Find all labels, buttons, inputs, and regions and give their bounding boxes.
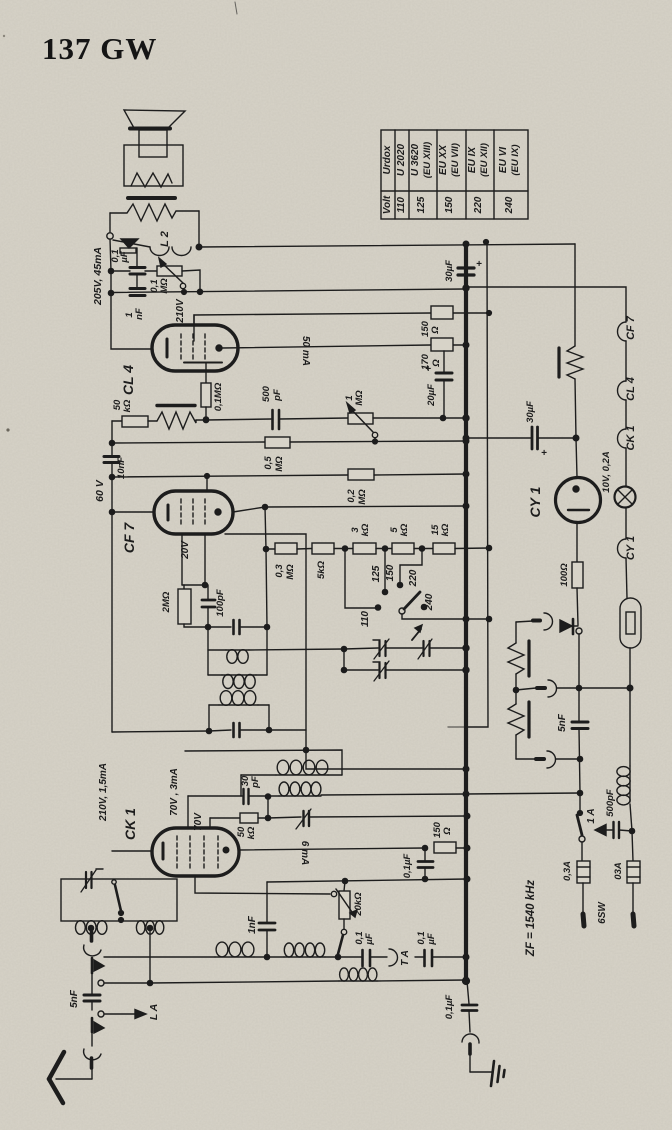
jack TA: [389, 949, 398, 966]
wire coil2 to LW line: [149, 928, 151, 983]
resistor 150 ohm (A): [431, 306, 453, 319]
tube CK1: [112, 850, 152, 852]
wire rail to cap: [111, 270, 130, 272]
pot 1M wiper: [372, 432, 377, 437]
svg-text:Volt: Volt: [382, 195, 393, 214]
fuse 0,3A left: [581, 842, 583, 861]
wire H8 0,5M row: [112, 442, 265, 443]
svg-text:137 GW: 137 GW: [42, 31, 157, 66]
svg-text:kΩ: kΩ: [122, 399, 133, 412]
svg-text:20kΩ: 20kΩ: [353, 892, 364, 917]
svg-text:100Ω: 100Ω: [559, 563, 570, 587]
dial lamp: [615, 487, 636, 508]
wire to terminal: [109, 213, 111, 232]
svg-text:220: 220: [408, 569, 419, 587]
pot wiper: [180, 283, 185, 288]
capacitor 1nF osc: [266, 882, 268, 922]
svg-text:(EU VII): (EU VII): [450, 143, 461, 177]
heater chain: [618, 322, 627, 341]
svg-text:kΩ: kΩ: [246, 826, 257, 839]
svg-text:Ω: Ω: [430, 326, 441, 335]
resistor 100 ohm: [576, 522, 578, 562]
svg-text:pF: pF: [272, 389, 283, 402]
oscillator feed line y750: [185, 750, 342, 775]
plug triangle right: [572, 619, 575, 634]
svg-text:EU XX: EU XX: [438, 144, 449, 175]
wire left rail upper: [110, 239, 152, 349]
svg-text:10V, 0,2A: 10V, 0,2A: [601, 451, 612, 493]
field coil box: [124, 145, 183, 186]
mains coil: [629, 688, 631, 766]
capacitor 500pF bottom: [612, 822, 614, 838]
svg-text:U 3620: U 3620: [410, 143, 421, 176]
transformer core: [128, 196, 175, 200]
svg-text:CK 1: CK 1: [122, 808, 138, 840]
svg-text:Urdox: Urdox: [382, 145, 393, 174]
svg-text:110: 110: [360, 611, 371, 627]
svg-text:30µF: 30µF: [525, 401, 536, 423]
oscillator trimmer: [268, 817, 301, 818]
svg-text:MΩ: MΩ: [354, 390, 365, 406]
wire H9 0,2M row: [112, 475, 348, 477]
svg-text:5nF: 5nF: [69, 989, 80, 1008]
resistor 170 ohm (B): [431, 338, 453, 351]
tube CL4: [152, 325, 238, 371]
wire y688: [516, 688, 536, 690]
bus bottom to ground: [463, 978, 470, 985]
capacitor 0,1uF ground: [462, 1004, 477, 1007]
IF A lower coil: [208, 674, 222, 676]
svg-text:MΩ: MΩ: [285, 564, 296, 580]
field coil resistor: [131, 173, 172, 187]
svg-text:30µF: 30µF: [444, 260, 455, 282]
svg-text:210V: 210V: [175, 298, 186, 324]
LA tap: [98, 1011, 104, 1017]
tube CY1: [576, 438, 577, 477]
svg-text:EU IX: EU IX: [467, 146, 478, 173]
band trimmer: [85, 872, 87, 888]
IF B cap line y730: [112, 731, 209, 732]
band switch box: [61, 879, 177, 921]
svg-text:ZF = 1540 kHz: ZF = 1540 kHz: [525, 880, 537, 958]
wire terminal to L2: [113, 240, 150, 247]
svg-text:CL 4: CL 4: [120, 365, 136, 395]
wire transformer right lead: [198, 211, 200, 247]
wire to Urdox branch: [574, 244, 576, 346]
coil L2: [150, 247, 191, 256]
wire H4 anode supply: [194, 313, 431, 326]
svg-text:MΩ: MΩ: [357, 489, 368, 505]
capacitor 0,1uF: [136, 248, 138, 266]
oscillator coil O2: [268, 795, 279, 797]
svg-text:CY 1: CY 1: [527, 486, 543, 517]
svg-text:µF: µF: [119, 251, 130, 263]
svg-text:205V, 45mA: 205V, 45mA: [92, 247, 104, 306]
wire H11 CF7 anode: [233, 507, 265, 512]
jack line y625: [516, 621, 533, 622]
svg-text:EU VI: EU VI: [498, 147, 509, 173]
wire H2 heater feed: [466, 287, 626, 322]
capacitor 500pF: [271, 410, 274, 429]
svg-text:kΩ: kΩ: [360, 523, 371, 536]
wire H6 CL4 anode: [222, 345, 431, 348]
svg-text:0,1MΩ: 0,1MΩ: [213, 382, 224, 411]
IF A coupling coil: [208, 649, 226, 651]
svg-text:50 mA: 50 mA: [300, 336, 311, 366]
capacitor 100pF: [207, 585, 209, 599]
svg-text:150: 150: [385, 564, 396, 581]
trimmer row y670: [343, 649, 345, 670]
resistor 50k osc: [267, 797, 269, 819]
svg-text:T A: T A: [400, 950, 411, 966]
svg-text:CK 1: CK 1: [625, 425, 637, 450]
potentiometer 20k: [344, 881, 345, 891]
svg-text:100pF: 100pF: [215, 589, 226, 617]
coil ant2: [267, 956, 284, 958]
capacitor 0,1uF bottom: [424, 848, 426, 860]
coil ant3: [339, 980, 377, 982]
svg-text:150: 150: [444, 196, 455, 213]
svg-text:+: +: [425, 364, 431, 375]
band coil 1: [76, 921, 86, 935]
svg-text:2MΩ: 2MΩ: [161, 591, 172, 613]
svg-text:60 V: 60 V: [94, 479, 106, 502]
paper mark top edge: [235, 2, 237, 14]
table Volt/Urdox: [381, 130, 528, 219]
svg-text:0,1µF: 0,1µF: [444, 995, 455, 1020]
svg-text:0,2: 0,2: [346, 489, 357, 503]
output transformer winding: [110, 204, 199, 221]
trimmer arrow: [412, 629, 421, 640]
IF transformer B coil: [209, 704, 219, 706]
capacitor 10nF in rail: [104, 455, 119, 458]
choke 2 with core: [515, 690, 517, 704]
band switch arm: [112, 880, 116, 884]
capacitor 30uF on bus: [458, 266, 474, 269]
capacitor 30pF: [188, 795, 242, 797]
svg-text:Ω: Ω: [431, 359, 442, 368]
terminal circle: [107, 233, 113, 239]
svg-text:6SW: 6SW: [597, 901, 608, 924]
svg-text:L A: L A: [148, 1004, 160, 1020]
tube CF7: [112, 511, 154, 513]
svg-text:MΩ: MΩ: [159, 278, 170, 294]
potentiometer 0,1M: [145, 270, 157, 272]
ground symbol: [491, 1061, 494, 1086]
choke 1 with core: [515, 622, 517, 643]
voltage selector contacts: [345, 548, 378, 608]
wire anode to IF primary: [265, 507, 267, 627]
capacitor 5nF right: [578, 634, 580, 721]
svg-text:kΩ: kΩ: [440, 523, 451, 536]
svg-text:500pF: 500pF: [605, 789, 616, 817]
svg-text:CY 1: CY 1: [625, 536, 637, 560]
IF transformer A top cap: [205, 624, 210, 629]
wire H13 divider row: [266, 548, 275, 550]
svg-text:Ω: Ω: [442, 827, 453, 836]
svg-text:110: 110: [396, 197, 407, 213]
antenna: [49, 1052, 64, 1079]
CF7 lower pins: [181, 534, 183, 585]
svg-text:pF: pF: [250, 776, 261, 789]
resistor 2M: [183, 585, 185, 589]
fuse holder oval: [620, 598, 641, 648]
wire H1 top bus: [199, 244, 575, 247]
jack ground: [462, 1034, 479, 1043]
capacitor 1nF top: [130, 287, 145, 290]
svg-text:20µF: 20µF: [426, 384, 437, 407]
svg-text:L 2: L 2: [159, 231, 171, 247]
wire 6mA anode line: [239, 848, 425, 850]
svg-text:125: 125: [416, 196, 427, 213]
svg-text:0,3: 0,3: [274, 564, 285, 578]
svg-text:6 mA: 6 mA: [299, 841, 310, 865]
speaker magnet: [139, 130, 167, 157]
svg-text:CL 4: CL 4: [625, 377, 637, 401]
svg-text:240: 240: [424, 593, 435, 611]
vertical line x489: [466, 242, 488, 727]
svg-text:(EU XIII): (EU XIII): [422, 142, 433, 178]
svg-text:nF: nF: [134, 308, 145, 320]
capacitor 0,1uF TA left: [361, 950, 364, 966]
svg-text:03A: 03A: [613, 862, 624, 880]
svg-text:1nF: 1nF: [247, 915, 258, 934]
wire H4 right of box A: [453, 312, 489, 314]
Urdox ballast resistor: [557, 348, 560, 377]
band coil 2: [136, 921, 145, 935]
svg-text:+: +: [541, 448, 547, 459]
svg-text:(EU XII): (EU XII): [479, 143, 490, 177]
svg-text:0,1µF: 0,1µF: [402, 854, 413, 879]
wire H12: [225, 534, 466, 769]
svg-text:1 A: 1 A: [586, 808, 597, 823]
resistor 0,1M under CL4: [201, 383, 211, 407]
capacitor 5nF ant: [91, 973, 93, 994]
wire y793 to bus: [466, 793, 580, 794]
selector arm: [404, 592, 420, 609]
svg-text:10nF: 10nF: [116, 457, 127, 479]
potentiometer 1M: [348, 413, 373, 424]
capacitor 0,1uF TA right: [415, 956, 424, 958]
svg-text:220: 220: [473, 196, 484, 214]
wire H3 screen line: [111, 289, 465, 293]
loudspeaker cone: [124, 110, 185, 128]
svg-text:240: 240: [504, 196, 515, 214]
svg-text:210V, 1,5mA: 210V, 1,5mA: [98, 763, 109, 822]
CK1 top pins: [187, 796, 189, 828]
fuse 0,3A right: [629, 828, 634, 833]
resistor 150 ohm bottom: [434, 842, 456, 853]
coil ant1: [215, 956, 254, 958]
capacitor 30uF right: [466, 437, 531, 439]
choke with core: [157, 404, 195, 407]
svg-text:125: 125: [371, 565, 382, 582]
IF A side wires: [207, 627, 209, 675]
resistor 50k: [122, 416, 148, 427]
svg-text:CF 7: CF 7: [625, 315, 637, 340]
svg-text:U 2020: U 2020: [396, 143, 407, 176]
svg-text:5nF: 5nF: [557, 713, 568, 732]
wire left rail lower: [111, 421, 113, 455]
capacitor 20uF: [443, 351, 445, 372]
svg-text:70V , 3mA: 70V , 3mA: [169, 768, 180, 816]
svg-text:0,5: 0,5: [263, 456, 274, 470]
wire H7 50k row: [112, 420, 122, 422]
plug marker triangle: [121, 239, 138, 248]
main HT bus: [464, 243, 468, 981]
antenna plug column: [90, 931, 94, 941]
wire TA line y957: [104, 956, 215, 958]
svg-text:(EU IX): (EU IX): [510, 144, 521, 175]
paper specks: [6, 428, 9, 431]
oscillator coil O1: [241, 774, 276, 776]
CK1 cathode pin to wiper: [195, 876, 330, 894]
wire LW line y982: [104, 982, 150, 984]
svg-text:0,3A: 0,3A: [562, 861, 573, 881]
svg-text:5kΩ: 5kΩ: [316, 560, 327, 579]
svg-text:CF 7: CF 7: [121, 522, 137, 554]
trimmer row y648: [341, 646, 346, 651]
svg-text:MΩ: MΩ: [274, 456, 285, 472]
svg-text:kΩ: kΩ: [399, 523, 410, 536]
plug lower: [91, 1018, 94, 1032]
switch 1A: [579, 793, 581, 813]
node at L2 output: [196, 244, 202, 250]
wire y879: [267, 879, 467, 882]
svg-text:500: 500: [261, 385, 272, 402]
svg-text:µF: µF: [364, 933, 375, 945]
svg-text:µF: µF: [426, 933, 437, 945]
svg-text:+: +: [476, 259, 482, 270]
